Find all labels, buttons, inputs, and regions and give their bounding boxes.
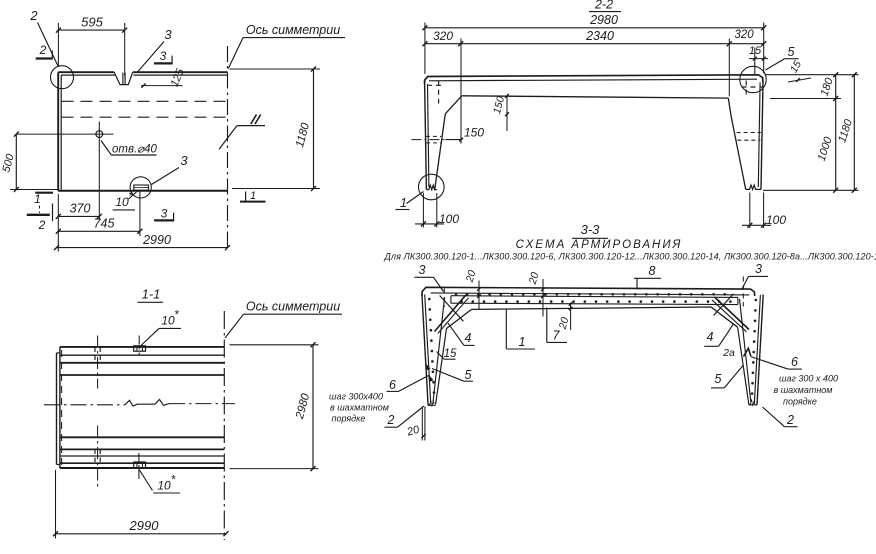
svg-text:шаг 300 х 400: шаг 300 х 400 (779, 374, 838, 384)
svg-text:100: 100 (766, 213, 786, 227)
svg-text:1: 1 (400, 196, 407, 210)
svg-text:370: 370 (70, 202, 91, 216)
svg-text:3-3: 3-3 (581, 222, 601, 237)
svg-text:595: 595 (81, 15, 103, 30)
svg-text:СХЕМА АРМИРОВАНИЯ: СХЕМА АРМИРОВАНИЯ (516, 239, 683, 251)
svg-text:15: 15 (444, 348, 457, 360)
svg-text:2: 2 (39, 43, 47, 57)
svg-text:320: 320 (734, 29, 754, 41)
svg-text:3: 3 (180, 153, 188, 168)
svg-text:2980: 2980 (589, 13, 618, 27)
svg-text:4: 4 (707, 330, 714, 344)
svg-text:в шахматном: в шахматном (774, 385, 833, 395)
svg-text:1: 1 (34, 192, 41, 206)
svg-text:2-2: 2-2 (594, 0, 613, 12)
svg-text:2: 2 (786, 413, 794, 427)
svg-text:2990: 2990 (129, 518, 160, 533)
svg-text:15: 15 (749, 45, 762, 57)
svg-text:1-1: 1-1 (142, 287, 161, 302)
svg-text:5: 5 (788, 45, 795, 59)
svg-text:6: 6 (791, 355, 798, 369)
svg-text:1: 1 (519, 335, 526, 349)
svg-text:10: 10 (161, 314, 175, 328)
svg-text:3: 3 (164, 27, 172, 42)
svg-text:Ось симметрии: Ось симметрии (246, 300, 340, 314)
svg-text:150: 150 (464, 126, 484, 140)
svg-text:7: 7 (553, 329, 561, 343)
svg-text:3: 3 (419, 263, 426, 277)
svg-text:6: 6 (389, 378, 396, 392)
svg-text:5: 5 (465, 368, 472, 382)
svg-text:3: 3 (161, 207, 168, 221)
svg-text:2: 2 (29, 8, 38, 23)
svg-text:*: * (174, 308, 179, 322)
svg-text:отв.⌀40: отв.⌀40 (112, 144, 157, 156)
svg-text:в шахматном: в шахматном (330, 403, 389, 413)
svg-text:5: 5 (715, 372, 722, 386)
svg-text:1: 1 (250, 190, 256, 202)
svg-text:2: 2 (387, 413, 395, 427)
svg-text:порядке: порядке (332, 414, 366, 424)
svg-text:3: 3 (755, 262, 762, 276)
svg-text:порядке: порядке (783, 397, 817, 407)
svg-text:10: 10 (115, 195, 129, 209)
svg-text:4: 4 (465, 331, 472, 345)
svg-text:8: 8 (649, 264, 656, 278)
svg-text:шаг 300х400: шаг 300х400 (329, 392, 383, 402)
svg-text:2990: 2990 (142, 233, 171, 247)
svg-text:Для ЛК300.300.120-1...ЛК300.30: Для ЛК300.300.120-1...ЛК300.300.120-6, Л… (384, 252, 876, 262)
svg-text:3: 3 (160, 49, 167, 63)
svg-text:10: 10 (157, 479, 171, 493)
svg-text:2: 2 (38, 218, 46, 232)
svg-text:320: 320 (433, 29, 453, 43)
svg-text:Ось симметрии: Ось симметрии (246, 23, 340, 37)
svg-text:745: 745 (94, 217, 115, 231)
svg-text:2а: 2а (722, 347, 735, 359)
svg-text:100: 100 (439, 212, 459, 226)
svg-text:*: * (171, 473, 176, 487)
svg-text:2340: 2340 (585, 29, 614, 43)
